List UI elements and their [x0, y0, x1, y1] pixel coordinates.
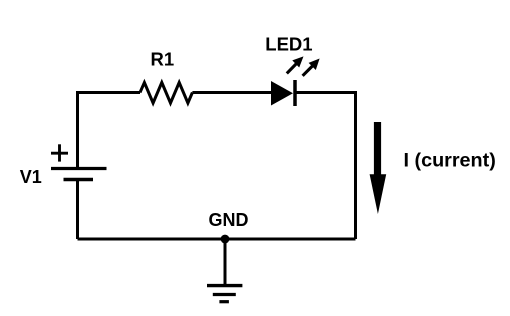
- wire: bottom rail from battery negative to right side: [78, 238, 356, 241]
- current direction arrow: [370, 122, 387, 214]
- resistor R1: [140, 83, 192, 104]
- battery V1 plus sign: [51, 144, 68, 161]
- svg-text:R1: R1: [151, 49, 175, 70]
- node GND junction dot: [221, 235, 230, 244]
- LED LED1 light arrow 1: [287, 56, 304, 73]
- wire: resistor R1 to LED1 anode: [192, 91, 271, 94]
- wire: LED1 cathode to top-right corner down to bottom-right corner: [297, 93, 356, 240]
- battery V1 positive plate: [51, 167, 107, 170]
- LED LED1 cathode bar: [293, 80, 297, 106]
- svg-text:I (current): I (current): [404, 150, 496, 172]
- wire: battery positive terminal up and right to resistor R1: [78, 93, 141, 169]
- wire: battery negative terminal down to bottom rail: [76, 181, 79, 239]
- ground symbol bar 2: [213, 293, 236, 296]
- svg-text:V1: V1: [20, 167, 42, 187]
- ground symbol bar 1: [207, 284, 242, 287]
- ground symbol bar 3: [219, 300, 229, 303]
- LED LED1 anode triangle: [271, 81, 293, 106]
- LED LED1 light arrow 2: [303, 59, 320, 76]
- svg-text:GND: GND: [209, 210, 249, 230]
- svg-text:LED1: LED1: [265, 34, 312, 55]
- battery V1 negative plate: [64, 178, 94, 182]
- ground symbol stem: [224, 239, 227, 286]
